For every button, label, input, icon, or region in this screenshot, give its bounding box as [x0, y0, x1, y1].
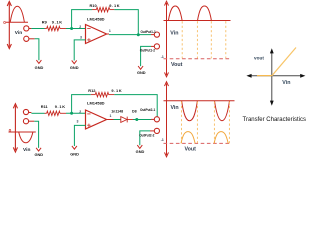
- resistor R11: [45, 111, 67, 115]
- svg-text:9.1K: 9.1K: [109, 3, 120, 8]
- plot 1 dashed guide lines: [182, 21, 226, 58]
- node B junction (output net 1): [137, 33, 140, 36]
- op-amp U1 LM1458D: [86, 25, 107, 44]
- resistor R12: [91, 92, 115, 96]
- plot 2 Vout zero line: [164, 142, 231, 144]
- source V2 sine icon axis: [9, 132, 36, 143]
- wire diode to output net 2: [133, 119, 151, 121]
- op-amp U1 plus mark: [87, 38, 90, 41]
- svg-text:0: 0: [9, 128, 12, 134]
- svg-text:-1: -1: [161, 138, 164, 142]
- svg-text:0: 0: [3, 20, 6, 26]
- svg-text:GND: GND: [70, 65, 79, 70]
- transfer curve positive segment: [272, 48, 296, 76]
- transfer plot vertical axis: [271, 53, 273, 102]
- node C junction (input net 2): [70, 112, 73, 115]
- resistor R9: [45, 26, 67, 30]
- svg-text:Vin: Vin: [15, 30, 22, 36]
- svg-text:GND: GND: [35, 65, 44, 70]
- svg-text:OutPut2-2: OutPut2-2: [139, 133, 154, 137]
- wire input net to R9: [31, 28, 44, 30]
- svg-text:LM1458D: LM1458D: [87, 101, 105, 106]
- svg-text:9.1K: 9.1K: [111, 88, 122, 93]
- ground GND1: [36, 60, 41, 63]
- node D junction (output net 2): [135, 118, 138, 121]
- wire feedback net 2 right to OutPut2-1: [114, 95, 157, 117]
- wire V1- to ground: [35, 39, 39, 60]
- ground GND2: [72, 60, 77, 63]
- wire R11 to op-amp U2 pin2: [66, 112, 86, 114]
- wire input net 2 to R11: [31, 112, 44, 114]
- source V2 amplitude arrow: [13, 104, 17, 152]
- wire V2+ stub: [29, 112, 32, 114]
- wire U2 pin3 to ground: [74, 125, 85, 146]
- diode D8 1n1148: [121, 117, 133, 123]
- terminal pin V2+: [23, 109, 28, 114]
- op-amp U1 minus mark: [87, 28, 90, 30]
- svg-text:1n1148: 1n1148: [111, 109, 123, 113]
- terminal pin OutPut2-1: [154, 117, 159, 122]
- svg-text:Vout: Vout: [171, 62, 183, 68]
- svg-text:Vout: Vout: [185, 147, 197, 153]
- resistor R10: [92, 7, 114, 11]
- op-amp U2 minus mark: [87, 113, 90, 115]
- plot 1 Vin hump 1: [168, 6, 182, 21]
- wire V2- stub: [29, 120, 35, 122]
- svg-text:3: 3: [77, 120, 79, 124]
- ground GND4: [36, 148, 41, 151]
- svg-text:Vin: Vin: [171, 105, 179, 111]
- plot 2 Vin dip 2: [215, 101, 230, 121]
- wire feedback net 1 right: [114, 10, 138, 35]
- svg-text:2: 2: [79, 110, 81, 114]
- svg-text:vout: vout: [254, 56, 264, 61]
- svg-text:OutPut1-1: OutPut1-1: [141, 30, 156, 34]
- transfer plot horizontal axis: [251, 75, 301, 77]
- svg-text:9.1K: 9.1K: [52, 19, 63, 24]
- node A junction (input net 1): [70, 27, 73, 30]
- svg-text:3: 3: [80, 35, 82, 39]
- svg-text:9.1K: 9.1K: [55, 104, 66, 109]
- wire OutPut2-2 to ground: [140, 131, 150, 145]
- wire OutPut1-2 to ground: [141, 46, 151, 66]
- ground GND6: [137, 145, 142, 148]
- plot 2 Vout hump 1: [181, 132, 195, 144]
- svg-text:1: 1: [109, 29, 111, 33]
- wire V1+ stub: [29, 28, 31, 30]
- source V1 sine hump: [10, 6, 24, 22]
- wire output net 2 red stub: [151, 118, 154, 120]
- terminal pin V1-: [24, 36, 29, 41]
- svg-text:R9: R9: [42, 19, 48, 24]
- svg-text:2: 2: [79, 25, 81, 29]
- ground GND3: [138, 66, 143, 69]
- wire output to diode: [114, 119, 121, 121]
- svg-text:D8: D8: [132, 109, 137, 113]
- plot 2 Vin axis: [164, 100, 235, 102]
- svg-text:-1: -1: [161, 55, 164, 59]
- svg-text:OutPut1-2: OutPut1-2: [140, 48, 155, 52]
- wire feedback net 1 left: [72, 10, 92, 29]
- source V2 sine dip: [19, 132, 33, 143]
- transfer curve negative segment: [257, 75, 272, 77]
- wire output net 1 red stub: [151, 34, 154, 36]
- svg-text:OutPut2-1: OutPut2-1: [140, 108, 155, 112]
- terminal pin V1+: [24, 26, 29, 31]
- plot 1 Vout zero line: [164, 58, 230, 60]
- plot 2 Vout hump 2: [214, 132, 228, 144]
- terminal pin V2-: [23, 119, 28, 124]
- wire feedback net 2 left: [72, 95, 91, 114]
- svg-text:GND: GND: [136, 149, 145, 154]
- svg-text:R11: R11: [41, 104, 49, 109]
- plot 2 Vin dip 1: [182, 101, 198, 121]
- svg-text:GND: GND: [70, 151, 79, 156]
- wire U1 output stub: [107, 33, 109, 35]
- svg-text:R12: R12: [88, 88, 96, 93]
- source V1 amplitude arrow: [7, 1, 11, 48]
- svg-text:Transfer Characteristics: Transfer Characteristics: [243, 117, 306, 123]
- svg-text:Vin: Vin: [282, 80, 290, 86]
- op-amp U2 plus mark: [87, 124, 90, 127]
- wire R9 to op-amp U1 pin2: [66, 28, 86, 30]
- ground GND5: [72, 146, 77, 149]
- terminal pin OutPut1-2: [154, 44, 159, 49]
- plot 1 Vin hump 2: [198, 6, 212, 21]
- wire U1 pin3 to ground: [74, 40, 85, 61]
- plot 1 Vin axis: [164, 20, 231, 22]
- wire OutPut2-2 red stub: [150, 130, 154, 132]
- plot 2 vertical axis: [165, 82, 169, 157]
- wire OutPut1-2 red stub: [151, 45, 154, 47]
- wire V1- stub: [29, 38, 35, 40]
- svg-text:GND: GND: [137, 70, 146, 75]
- svg-text:R10: R10: [90, 3, 97, 8]
- svg-text:GND: GND: [34, 152, 43, 157]
- wire U2 output stub: [107, 119, 114, 121]
- source V1 sine icon axis: [6, 6, 28, 22]
- plot 2 dashed guide lines: [182, 102, 230, 144]
- terminal pin OutPut1-1: [154, 32, 159, 37]
- svg-text:1: 1: [110, 114, 112, 118]
- wire V2- to ground: [34, 121, 38, 148]
- plot 1 vertical axis: [165, 1, 169, 77]
- svg-text:LM1458D: LM1458D: [87, 17, 105, 22]
- op-amp U2 LM1458D: [86, 110, 107, 129]
- svg-text:Vin: Vin: [170, 30, 178, 36]
- terminal pin OutPut2-2: [154, 128, 159, 133]
- svg-text:Vin: Vin: [23, 147, 30, 153]
- wire output net 1: [109, 34, 151, 36]
